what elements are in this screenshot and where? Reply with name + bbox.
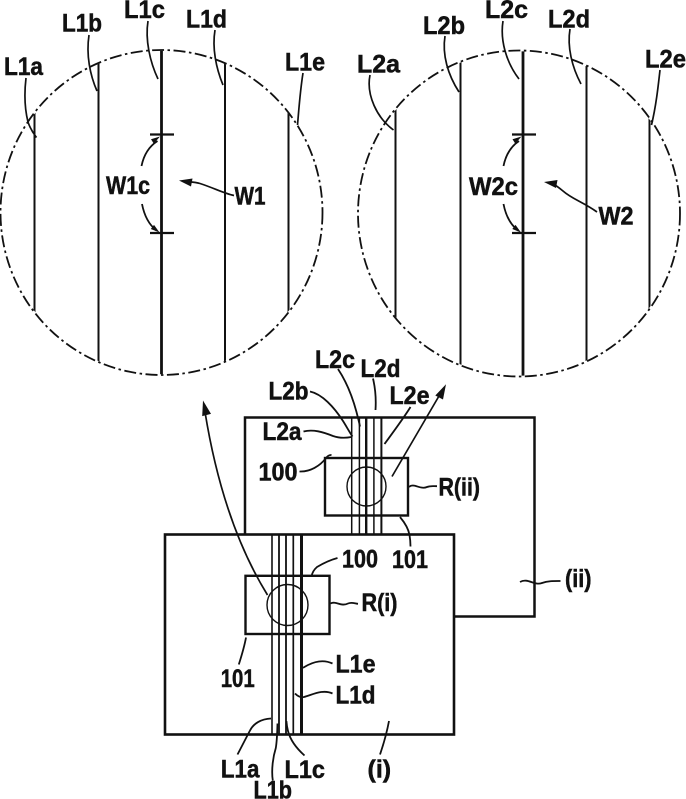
svg-text:L1a: L1a [4,53,44,81]
R(ii) leader [409,486,437,488]
L2b leader [444,36,459,92]
L1d leader [214,30,223,85]
upper fiber bundle line L2b [358,418,360,535]
svg-text:L2d: L2d [548,6,590,34]
svg-text:W2c: W2c [469,173,518,201]
lower fiber bundle line L1a [271,535,273,735]
L2b bottom leader [310,392,353,437]
svg-text:L2a: L2a [263,418,303,446]
svg-text:L2c: L2c [315,346,355,374]
upper fiber bundle line L2c [365,418,367,535]
100 lower leader [312,558,338,577]
L1b leader [88,35,97,91]
svg-text:R(ii): R(ii) [439,474,481,502]
svg-text:W1c: W1c [106,172,150,200]
101 lower leader [239,638,246,665]
100 upper leader [300,455,332,472]
W1c lower arrowhead [151,225,160,233]
L2e leader [652,70,661,125]
svg-text:101: 101 [392,546,428,574]
svg-text:L2d: L2d [361,355,401,383]
svg-text:L2a: L2a [357,51,401,79]
W2c upper arrowhead [513,137,522,144]
lower fiber bundle line L1d [292,535,294,735]
region box R(ii) [325,458,408,516]
svg-text:L1d: L1d [336,682,376,710]
L2d bottom leader [373,379,376,411]
rectangle (ii) substrate [245,418,535,617]
line L2a [395,50,397,378]
upper fiber bundle line L2e [380,418,382,535]
W2c upper arc leader [504,141,520,166]
svg-text:L1c: L1c [285,756,326,784]
upper fiber bundle line L2d [373,418,375,535]
circle in R(ii) [347,467,386,506]
lower fiber bundle line L1c [285,535,287,735]
W1c lower arc leader [142,204,157,231]
svg-text:W1: W1 [235,183,266,211]
line L1c (center, thick) [160,50,163,377]
upper fiber bundle line L2a [351,418,353,535]
L2a leader [369,75,393,130]
W2c lower arc leader [504,204,519,231]
W1c upper arrowhead [151,137,160,144]
circle in R(i) [267,585,308,626]
W1 arrowhead [179,179,193,187]
arrowhead to right circle [435,384,446,399]
svg-text:L2c: L2c [485,0,528,24]
tick top W2c [512,133,536,135]
region box R(i) [246,576,330,634]
L2a bottom leader [304,431,352,438]
lower fiber bundle line L1e [300,535,303,735]
line L2d [586,50,588,378]
arrowhead to left circle [202,401,211,417]
R(i) leader [331,603,359,605]
L1d bottom leader [295,692,333,697]
tick bottom W1c [150,232,174,234]
L2e bottom leader [385,407,411,444]
svg-text:100: 100 [342,546,378,574]
svg-text:L1e: L1e [285,49,325,77]
svg-text:L1e: L1e [336,651,376,679]
W2 arrow [553,184,597,212]
svg-text:101: 101 [221,665,255,693]
magnifier circle 2 (dash-dot) [358,51,680,377]
lower fiber bundle line L1b [278,535,280,735]
long arrow to right circle [392,390,443,477]
L1b bottom leader [272,724,277,781]
line L1a [34,50,36,377]
L2c leader [502,21,519,79]
svg-text:100: 100 [259,459,298,487]
L1e leader [298,73,304,125]
W1c upper arc leader [142,141,158,166]
long arrow to left circle [205,412,268,595]
W2 arrowhead [544,180,558,188]
svg-text:L1b: L1b [62,10,102,38]
(ii) leader [520,581,561,584]
svg-text:(i): (i) [368,756,392,784]
L1e bottom leader [303,661,333,668]
svg-text:(ii): (ii) [565,565,592,593]
line L1b [98,50,100,377]
rectangle (i) substrate (covers part of (ii)) [165,535,454,735]
line L2b [460,50,462,378]
svg-text:R(i): R(i) [362,589,398,617]
tick bottom W2c [512,232,536,234]
L2d leader [569,29,581,84]
svg-text:W2: W2 [599,203,634,231]
svg-text:L1d: L1d [186,6,227,34]
line L1e [288,50,290,377]
svg-text:L2e: L2e [390,382,430,410]
magnifier circle 1 (dash-dot) [1,50,323,375]
W1 arrow [188,182,234,196]
L2c bottom leader [338,369,360,427]
L1c leader [147,21,158,79]
L1a leader [25,78,37,138]
svg-text:L2b: L2b [423,12,465,40]
101 upper leader [400,517,411,547]
svg-text:L1c: L1c [124,0,165,24]
svg-text:L2e: L2e [645,46,686,74]
line L1d [224,50,226,377]
line L2e [649,50,651,378]
L1c bottom leader [286,721,304,756]
L1a bottom leader [238,719,272,755]
line L2c (center, thick) [522,50,525,378]
(i) leader [380,721,389,755]
tick top W1c [150,133,174,135]
W2c lower arrowhead [512,225,521,233]
svg-text:L2b: L2b [269,378,309,406]
